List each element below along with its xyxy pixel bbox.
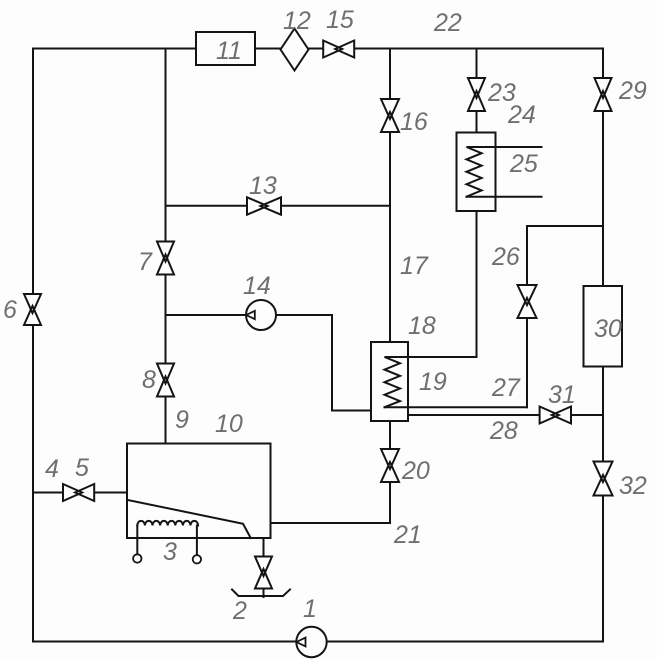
svg-text:32: 32 [619,472,647,500]
drain funnel 2 [232,590,290,597]
wire exchanger 24 to exchanger 19 [476,211,478,357]
valve 13 [247,196,281,215]
svg-text:10: 10 [215,410,243,438]
svg-text:31: 31 [548,381,576,409]
sloped tray in vessel 10 [127,500,251,538]
svg-text:7: 7 [138,248,153,276]
svg-text:9: 9 [175,406,189,434]
apparatus 11 [196,32,255,65]
filter 12 [281,29,309,71]
svg-text:2: 2 [232,597,247,625]
heater leg left [136,526,138,555]
wire valve 2 drain drop [263,538,265,597]
svg-text:15: 15 [326,6,354,34]
wire valve 20 drop [389,421,391,523]
svg-text:19: 19 [419,368,447,396]
heater leg right [196,526,198,556]
vessel 30 [584,286,623,367]
wire second riser / line 9 [165,49,167,444]
svg-text:12: 12 [283,7,311,35]
pump 14 impeller mark [246,311,255,319]
wire top manifold 22 [33,48,603,50]
svg-text:1: 1 [303,595,317,623]
wire line 27 [385,406,528,408]
svg-text:6: 6 [3,296,17,324]
valve 26 [517,285,538,318]
wire bottom return [33,641,603,643]
svg-text:18: 18 [408,312,436,340]
valve 16 [380,99,400,132]
svg-text:11: 11 [216,37,242,65]
svg-text:4: 4 [45,455,59,483]
heater terminal right [193,555,201,563]
wire line 13 [166,205,391,207]
valve 6 [23,294,42,325]
valve 23 [467,78,486,111]
wire right riser [602,49,604,642]
valve 7 [156,242,175,275]
svg-text:13: 13 [249,172,277,200]
wire left riser [32,49,34,642]
svg-text:16: 16 [400,108,428,136]
svg-text:29: 29 [618,77,647,105]
wire pump 14 branch [166,315,372,411]
svg-text:14: 14 [243,272,271,300]
pump 1 [296,627,326,657]
wire valve 23 branch [476,49,478,133]
wire line 17 [389,49,391,343]
vessel 10 [127,444,271,539]
wire line 28 [408,414,603,416]
coil of exchanger 25 [467,147,542,197]
svg-text:27: 27 [491,374,521,402]
svg-text:21: 21 [393,521,422,549]
valve 20 [380,449,400,482]
svg-text:22: 22 [433,9,462,37]
valve 5 [63,483,94,502]
heater coil 3 [137,521,198,526]
wire line 26 branch [527,226,603,407]
svg-text:3: 3 [163,538,177,566]
svg-text:20: 20 [401,457,430,485]
wire line 4 inlet [33,492,127,494]
svg-text:28: 28 [489,417,518,445]
valve 29 [594,78,613,111]
valve 31 [540,406,571,425]
svg-text:8: 8 [142,366,156,394]
wire line 21 [271,522,391,524]
coil of exchanger 19 [385,357,477,407]
svg-text:24: 24 [507,101,536,129]
svg-text:26: 26 [491,243,520,271]
valve 2 [254,557,273,589]
pump 14 [246,300,276,330]
valve 32 [593,462,614,496]
heater terminal left [133,554,141,562]
svg-text:30: 30 [594,315,622,343]
heat exchanger 24 [457,133,496,212]
svg-text:17: 17 [400,252,429,280]
heat exchanger 18 [371,342,408,421]
valve 15 [323,40,354,59]
svg-text:25: 25 [509,150,538,178]
wire exchanger 24 lower stub [467,196,542,198]
pump 1 impeller mark [297,638,306,647]
valve 8 [156,364,175,397]
svg-text:5: 5 [75,454,89,482]
